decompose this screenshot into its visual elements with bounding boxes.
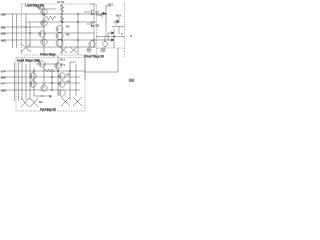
svg-text:Vb3: Vb3 xyxy=(1,38,6,42)
svg-text:Vi+: Vi+ xyxy=(1,69,6,73)
svg-text:Cc: Cc xyxy=(37,60,41,64)
svg-text:M16: M16 xyxy=(116,14,122,18)
svg-text:Power Stage: Power Stage xyxy=(40,53,56,57)
svg-text:Vdd: Vdd xyxy=(1,12,6,16)
svg-text:Power Stage 2B: Power Stage 2B xyxy=(84,55,105,59)
svg-text:Vb5: Vb5 xyxy=(1,88,6,92)
svg-text:M1a: M1a xyxy=(60,58,66,62)
svg-text:Load Stage (R): Load Stage (R) xyxy=(25,4,45,8)
svg-text:M8: M8 xyxy=(96,24,100,28)
svg-text:Vi−: Vi− xyxy=(1,81,6,85)
svg-text:Vb1: Vb1 xyxy=(1,25,6,29)
svg-text:M5: M5 xyxy=(66,25,70,29)
svg-text:R1 R2: R1 R2 xyxy=(57,0,65,4)
svg-text:M2a: M2a xyxy=(60,63,66,67)
svg-text:M7: M7 xyxy=(96,11,100,15)
svg-text:M15: M15 xyxy=(108,3,114,7)
svg-text:M4: M4 xyxy=(67,80,71,84)
svg-text:M3: M3 xyxy=(67,73,71,77)
svg-text:Input stage 2B: Input stage 2B xyxy=(40,108,57,112)
svg-text:M6: M6 xyxy=(66,33,70,37)
svg-text:Vb2: Vb2 xyxy=(1,31,6,35)
svg-text:Vb4: Vb4 xyxy=(1,75,6,79)
svg-text:M9: M9 xyxy=(39,100,43,104)
svg-text:M1: M1 xyxy=(38,6,42,10)
